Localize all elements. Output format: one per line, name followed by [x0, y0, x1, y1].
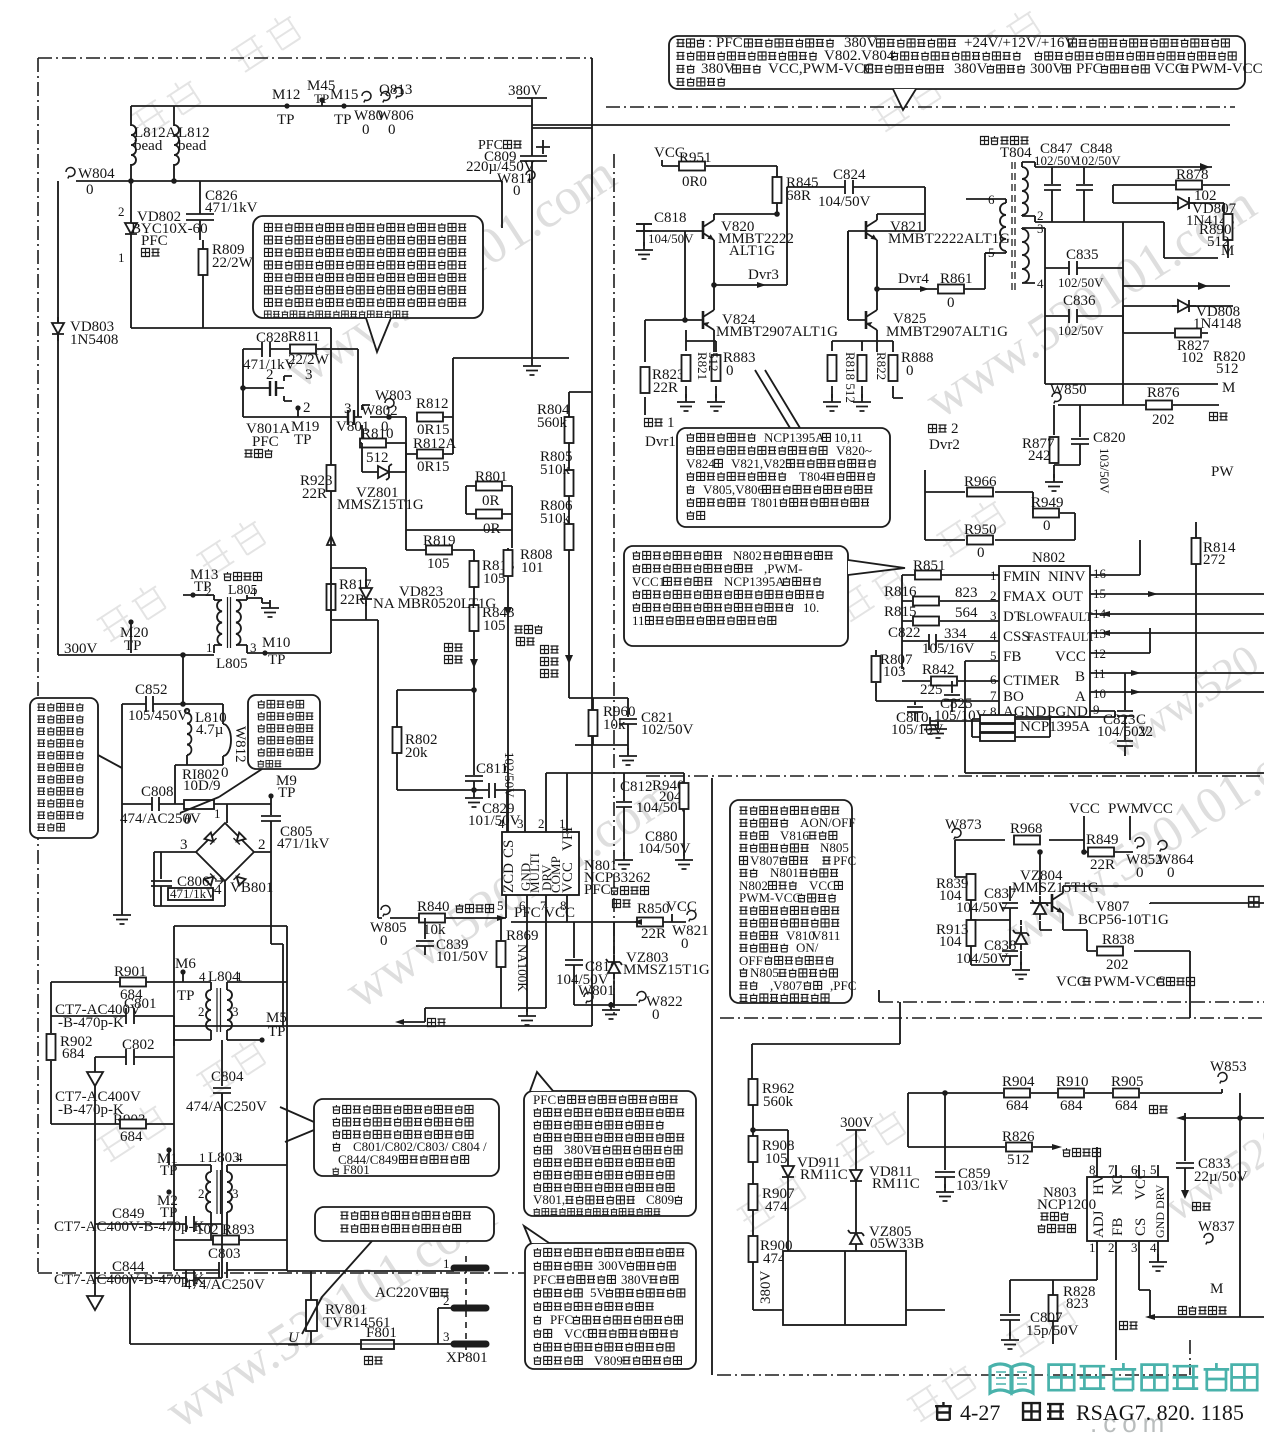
svg-text:PFC: PFC	[833, 853, 856, 868]
svg-text:380V: 380V	[701, 61, 735, 77]
resistor R890	[1224, 214, 1233, 240]
svg-text:202: 202	[1106, 957, 1129, 973]
main power section frame	[606, 107, 1235, 1018]
drive out arrow	[404, 1008, 425, 1022]
svg-text:TP: TP	[294, 432, 312, 448]
jumper W803 W802	[385, 398, 394, 409]
svg-text:272: 272	[1203, 552, 1226, 568]
jumper W873	[952, 828, 961, 839]
svg-text:2: 2	[198, 1186, 205, 1201]
svg-text:PFC: PFC	[584, 882, 611, 898]
svg-text:9: 9	[1093, 702, 1100, 717]
capacitor C816	[565, 922, 583, 1005]
svg-text:2: 2	[303, 400, 311, 416]
svg-text:R818 512: R818 512	[843, 352, 858, 403]
svg-text:103/1kV: 103/1kV	[956, 1178, 1009, 1194]
svg-text:510k: 510k	[540, 511, 571, 527]
svg-text:R905: R905	[1111, 1074, 1144, 1090]
left resistor chain	[752, 1002, 900, 1310]
svg-text:105: 105	[483, 618, 506, 634]
capacitor C829 + ground	[465, 790, 483, 807]
svg-text:3: 3	[990, 608, 997, 623]
svg-text:PFC: PFC	[716, 35, 743, 51]
Dvr4 R861	[877, 187, 995, 289]
svg-text:MMBT2907ALT1G: MMBT2907ALT1G	[716, 324, 838, 340]
svg-text:823: 823	[955, 585, 978, 601]
svg-text:C824: C824	[833, 167, 866, 183]
svg-text:ADJ: ADJ	[1091, 1210, 1107, 1238]
svg-text:U: U	[288, 1330, 300, 1346]
svg-text:471/1kV: 471/1kV	[277, 836, 330, 852]
svg-text:4: 4	[990, 628, 997, 643]
svg-text:N802: N802	[1032, 550, 1065, 566]
svg-text:R861: R861	[940, 271, 973, 287]
svg-text:R812A: R812A	[413, 436, 457, 452]
svg-text:16: 16	[1093, 566, 1107, 581]
annotation box: current limit resistor	[248, 695, 320, 769]
svg-text:,V807: ,V807	[770, 978, 803, 993]
svg-text:0: 0	[726, 363, 734, 379]
pin9 PGND resistors	[972, 711, 1115, 737]
svg-text:B: B	[1075, 669, 1085, 685]
drive2 labels	[929, 425, 947, 433]
svg-text:105: 105	[765, 1151, 788, 1167]
PFC VCC rail	[511, 921, 686, 923]
resistor R851	[915, 571, 941, 580]
resistor R808	[504, 550, 513, 576]
svg-text:4: 4	[498, 816, 505, 831]
svg-text:101/50V: 101/50V	[468, 813, 521, 829]
svg-text:6: 6	[988, 192, 995, 207]
pins N801 bottom	[506, 895, 567, 1012]
transistor V801A PFC switch	[240, 385, 246, 391]
R814	[1195, 522, 1197, 580]
left border wire	[712, 778, 879, 1375]
svg-text:R811: R811	[288, 329, 320, 345]
right pin wires	[1090, 540, 1264, 711]
svg-text:C820: C820	[1093, 430, 1126, 446]
overcurrent protect label	[1179, 1306, 1227, 1315]
resistor R826 startup	[908, 1146, 1052, 1148]
svg-text:W805: W805	[370, 920, 407, 936]
resistor R806	[565, 524, 574, 550]
svg-text:R878: R878	[1176, 167, 1209, 183]
svg-text:102: 102	[1181, 350, 1204, 366]
energy storage inductor label	[224, 572, 262, 581]
svg-text:560k: 560k	[537, 415, 568, 431]
svg-text:11: 11	[632, 613, 645, 628]
resistor R869	[425, 918, 546, 1008]
svg-text:L803: L803	[208, 1150, 240, 1166]
svg-text:W812: W812	[232, 726, 248, 763]
inductor L812A	[131, 125, 136, 165]
svg-text:2: 2	[951, 421, 959, 437]
resistor R839	[955, 874, 971, 920]
svg-text:R816: R816	[884, 584, 917, 600]
svg-text:VCC: VCC	[560, 862, 576, 893]
svg-text:3: 3	[232, 1004, 239, 1019]
svg-text:6: 6	[990, 672, 997, 687]
resistor R812A	[417, 450, 443, 459]
svg-text:W873: W873	[945, 817, 982, 833]
svg-text:N802: N802	[733, 548, 762, 563]
svg-text:R838: R838	[1102, 932, 1135, 948]
resistor R901	[51, 981, 211, 983]
svg-text:R910: R910	[1056, 1074, 1089, 1090]
svg-text:L805: L805	[216, 656, 248, 672]
svg-text:560k: 560k	[763, 1094, 794, 1110]
svg-text:22R: 22R	[340, 592, 365, 608]
svg-text:204: 204	[659, 789, 682, 805]
transistor V821	[866, 220, 877, 240]
output voltage sense label	[541, 646, 559, 654]
svg-text:10.: 10.	[803, 600, 819, 615]
svg-text:564: 564	[955, 605, 978, 621]
svg-text:104/50V: 104/50V	[956, 951, 1009, 967]
svg-text:VFI: VFI	[560, 827, 576, 851]
svg-text:15p/50V: 15p/50V	[1026, 1323, 1079, 1339]
svg-text:102/50V: 102/50V	[1034, 153, 1080, 168]
svg-text:0: 0	[681, 936, 689, 952]
annotation box: main power note	[669, 36, 1245, 89]
IC N803 NCP1200	[1087, 1177, 1168, 1241]
capacitor C811	[465, 690, 483, 790]
svg-text:101: 101	[521, 560, 544, 576]
svg-text:VB801: VB801	[230, 880, 273, 896]
svg-text:R826: R826	[1002, 1129, 1035, 1145]
svg-text:FB: FB	[1003, 649, 1021, 665]
svg-text:104/50V: 104/50V	[818, 194, 871, 210]
svg-text:684: 684	[62, 1046, 85, 1062]
IC N801 NCP33262	[502, 832, 579, 895]
resistor R804	[565, 417, 574, 443]
resistor R828	[1053, 1280, 1097, 1344]
jumper W804	[66, 167, 75, 178]
svg-text:Dvr3: Dvr3	[748, 267, 779, 283]
svg-text:2: 2	[118, 204, 125, 219]
svg-text:102/50V: 102/50V	[1075, 153, 1121, 168]
svg-text:0: 0	[86, 182, 94, 198]
svg-text:NCP1395A: NCP1395A	[1020, 719, 1090, 735]
svg-text:4: 4	[1150, 1240, 1157, 1255]
resistors R821 R883	[686, 330, 716, 398]
capacitor C825	[944, 681, 960, 712]
svg-text:10: 10	[1093, 686, 1106, 701]
R877 C820	[1053, 405, 1055, 478]
svg-text:0R15: 0R15	[417, 459, 450, 475]
svg-text:5: 5	[1150, 1162, 1157, 1177]
svg-text:104/50V: 104/50V	[638, 841, 691, 857]
svg-text:R801: R801	[475, 469, 508, 485]
svg-text:4: 4	[1037, 276, 1044, 291]
svg-text:M12: M12	[272, 87, 300, 103]
diode VD802 PFC rectifier	[125, 217, 137, 241]
svg-text:NCP1395A: NCP1395A	[724, 574, 785, 589]
XP801 pins	[454, 1265, 486, 1272]
svg-text:VCC1: VCC1	[632, 574, 665, 589]
svg-text:C852: C852	[135, 682, 168, 698]
svg-text:102/50V: 102/50V	[641, 722, 694, 738]
capacitor C809	[520, 140, 550, 161]
transistor V825	[866, 310, 877, 330]
svg-text:0: 0	[380, 933, 388, 949]
svg-text:380V: 380V	[564, 1142, 594, 1157]
svg-text:104/50V: 104/50V	[648, 231, 694, 246]
resistor R902	[47, 1034, 56, 1060]
svg-text:22R: 22R	[641, 926, 666, 942]
svg-text:300V: 300V	[1030, 61, 1064, 77]
svg-text:Dvr2: Dvr2	[929, 437, 960, 453]
svg-text:2: 2	[198, 1004, 205, 1019]
svg-text:512: 512	[706, 352, 721, 372]
test point M20	[128, 619, 133, 624]
svg-text:C836: C836	[1063, 293, 1096, 309]
svg-text:2: 2	[443, 1293, 450, 1308]
drive arrow + W837	[1181, 1190, 1189, 1199]
resistor R923	[330, 328, 332, 568]
svg-text:0: 0	[362, 122, 370, 138]
svg-text:T801: T801	[751, 495, 778, 510]
svg-text:R951: R951	[679, 150, 712, 166]
wire top bus	[131, 58, 592, 1026]
svg-text:4: 4	[250, 584, 257, 599]
svg-text:3: 3	[232, 1186, 239, 1201]
resistor R842 pin6	[931, 677, 957, 686]
svg-text:PFC: PFC	[141, 233, 168, 249]
svg-text:5V: 5V	[590, 1285, 607, 1300]
svg-text:R815: R815	[884, 604, 917, 620]
svg-text:M15: M15	[330, 87, 358, 103]
annotation box: EMI filter note	[314, 1099, 499, 1176]
svg-text:MMBT2907ALT1G: MMBT2907ALT1G	[886, 324, 1008, 340]
diode VD911	[753, 1130, 788, 1310]
resistor R913	[971, 920, 1010, 965]
svg-text:380V: 380V	[758, 1271, 774, 1305]
inductor L810	[185, 709, 189, 713]
svg-text:512: 512	[1216, 361, 1239, 377]
svg-text::: :	[708, 35, 712, 51]
svg-text:C803: C803	[208, 1246, 241, 1262]
svg-text:3: 3	[344, 401, 352, 417]
left PFC section frame	[38, 58, 592, 1273]
svg-text:10k: 10k	[423, 922, 446, 938]
svg-text:1: 1	[1089, 1240, 1096, 1255]
annotation box: mains rectifier note	[253, 216, 483, 318]
svg-text:4: 4	[236, 1150, 243, 1165]
svg-text:FMIN: FMIN	[1003, 569, 1041, 585]
capacitor C806	[151, 852, 172, 906]
svg-text:3: 3	[1131, 1240, 1138, 1255]
svg-text:22R: 22R	[302, 486, 327, 502]
svg-text:VCC: VCC	[1055, 649, 1086, 665]
svg-text:HV: HV	[1091, 1173, 1107, 1195]
svg-text:TP: TP	[277, 112, 295, 128]
annotation box: varistor note	[315, 1207, 494, 1241]
test points M1 M2	[166, 1147, 171, 1152]
svg-text:R869: R869	[506, 928, 539, 944]
svg-text:MMSZ15T1G: MMSZ15T1G	[1012, 880, 1099, 896]
svg-text:0: 0	[1043, 518, 1051, 534]
svg-text:V821,V825: V821,V825	[731, 456, 792, 471]
svg-text:C835: C835	[1066, 247, 1099, 263]
svg-text:105/450V: 105/450V	[128, 708, 188, 724]
R966 R949 R950	[925, 470, 1075, 540]
svg-text:474/AC250V: 474/AC250V	[120, 811, 201, 827]
svg-text:PFC VCC: PFC VCC	[514, 905, 575, 921]
annotation box: mains filter	[30, 698, 98, 838]
svg-text:R904: R904	[1002, 1074, 1035, 1090]
ground input filter	[113, 907, 131, 924]
lower separator between control and aux sections	[646, 775, 1264, 777]
drive1 labels	[645, 419, 663, 427]
diode VD808	[1123, 305, 1233, 307]
svg-text:3: 3	[180, 837, 188, 853]
resistor R805	[565, 470, 574, 496]
svg-text:PWM-VCC: PWM-VCC	[739, 890, 801, 905]
svg-text:VCC: VCC	[809, 878, 836, 893]
svg-text:W803: W803	[375, 388, 412, 404]
diode VD807	[1172, 197, 1196, 209]
svg-text:ZCD: ZCD	[501, 863, 517, 893]
svg-text:05W33B: 05W33B	[870, 1236, 924, 1252]
svg-text:2: 2	[990, 588, 997, 603]
svg-text:NINV: NINV	[1048, 569, 1086, 585]
chassis ground	[87, 1072, 103, 1086]
svg-text:C822: C822	[888, 625, 921, 641]
resistor R849	[1084, 851, 1133, 853]
resistor R801 pair	[476, 482, 502, 491]
svg-text:R812: R812	[416, 396, 449, 412]
transistor V801	[348, 410, 354, 425]
svg-text:R968: R968	[1010, 821, 1043, 837]
capacitor C826	[186, 181, 214, 240]
transistor V824	[703, 310, 714, 330]
inductor L812	[174, 125, 179, 165]
svg-text:R819: R819	[423, 533, 456, 549]
svg-text:PFC: PFC	[1076, 61, 1103, 77]
svg-text:4.7µ: 4.7µ	[196, 722, 224, 738]
top bus wires	[532, 124, 1230, 126]
pins into N801 top	[507, 773, 684, 832]
ground PFC cap	[523, 358, 541, 375]
svg-text:R842: R842	[922, 662, 955, 678]
svg-text:NC: NC	[1110, 1174, 1126, 1195]
svg-text:22R: 22R	[1090, 857, 1115, 873]
svg-text:300V: 300V	[840, 1115, 874, 1131]
capacitor C807	[1000, 1280, 1053, 1336]
node L812A top	[131, 106, 174, 181]
svg-text:1: 1	[199, 1150, 206, 1165]
svg-text:V824: V824	[686, 456, 715, 471]
svg-text:PWM-VCC: PWM-VCC	[1191, 61, 1263, 77]
svg-text:M10: M10	[262, 635, 290, 651]
svg-text:VCC: VCC	[666, 899, 697, 915]
svg-text:510k: 510k	[540, 462, 571, 478]
svg-text:1: 1	[206, 640, 213, 655]
capacitor C859	[935, 1093, 955, 1188]
varistor RV801	[306, 1300, 317, 1331]
svg-text:471/1kV: 471/1kV	[170, 886, 216, 901]
svg-text:104/50V: 104/50V	[956, 900, 1009, 916]
svg-text:V809: V809	[594, 1353, 623, 1368]
transistor V807	[1052, 893, 1063, 913]
svg-text:5: 5	[990, 648, 997, 663]
transistor V820	[703, 220, 714, 240]
resistor R819	[426, 546, 452, 555]
zener VZ803	[574, 922, 637, 1005]
svg-text:N801: N801	[770, 865, 799, 880]
Dvr3 out	[714, 187, 787, 285]
svg-text:0: 0	[947, 295, 955, 311]
svg-text:GND DRV: GND DRV	[1153, 1184, 1167, 1238]
svg-text:TP: TP	[314, 91, 329, 106]
svg-text:0: 0	[977, 545, 985, 561]
resistor R823	[645, 320, 685, 415]
svg-text:bead: bead	[134, 138, 163, 154]
zener VZ806	[1013, 926, 1029, 950]
svg-text:W837: W837	[1198, 1219, 1235, 1235]
svg-text:0: 0	[1136, 865, 1144, 881]
svg-text:M6: M6	[175, 956, 196, 972]
svg-text:R849: R849	[1086, 832, 1119, 848]
svg-text:1: 1	[667, 415, 675, 431]
lower left verticals	[174, 926, 287, 960]
resistor R816	[913, 597, 939, 606]
svg-text:RSAG7. 820. 1185: RSAG7. 820. 1185	[1076, 1400, 1244, 1425]
long vertical joins	[965, 580, 1264, 773]
wire gate row	[243, 416, 348, 418]
svg-text:3: 3	[443, 1329, 450, 1344]
svg-text:TP: TP	[268, 1024, 286, 1040]
resistor R843	[470, 605, 479, 631]
resistor R813	[473, 550, 475, 605]
svg-text:0: 0	[906, 363, 914, 379]
svg-text:105/16V: 105/16V	[922, 641, 975, 657]
svg-text:TP: TP	[124, 638, 142, 654]
svg-text:103/50V: 103/50V	[1097, 448, 1112, 494]
diode VD803	[52, 317, 64, 341]
annotation box: drive circuit note	[677, 428, 890, 527]
svg-text:103: 103	[883, 664, 906, 680]
svg-text:PWM: PWM	[1108, 801, 1144, 817]
svg-text:512: 512	[366, 450, 389, 466]
svg-text:NA100K: NA100K	[515, 944, 530, 992]
svg-text:512: 512	[1007, 1152, 1030, 1168]
svg-text:380V: 380V	[621, 1272, 651, 1287]
svg-text:V820~: V820~	[836, 443, 872, 458]
svg-text:R901: R901	[114, 964, 147, 980]
svg-text:W806: W806	[377, 108, 414, 124]
mains sense arrow	[445, 644, 463, 652]
svg-text:3: 3	[305, 367, 313, 383]
svg-text:4-27: 4-27	[960, 1400, 1000, 1425]
svg-text:www.520: www.520	[1099, 635, 1264, 768]
svg-text:ALT1G: ALT1G	[729, 243, 775, 259]
svg-text:SLOWFAULT: SLOWFAULT	[1019, 610, 1093, 624]
svg-text:OUT: OUT	[1052, 589, 1083, 605]
resistor R845	[776, 166, 778, 214]
svg-text:VCC: VCC	[1056, 974, 1087, 990]
svg-text:0R0: 0R0	[682, 174, 707, 190]
svg-text:300V: 300V	[598, 1258, 628, 1273]
svg-text:684: 684	[1115, 1098, 1138, 1114]
IC N802 NCP1395A	[999, 566, 1090, 717]
svg-text:MMSZ15T1G: MMSZ15T1G	[337, 497, 424, 513]
svg-text:R851: R851	[913, 558, 946, 574]
left vertical rails	[51, 960, 592, 1124]
svg-text:10k: 10k	[603, 717, 626, 733]
R807 C810 pin7	[876, 650, 999, 701]
